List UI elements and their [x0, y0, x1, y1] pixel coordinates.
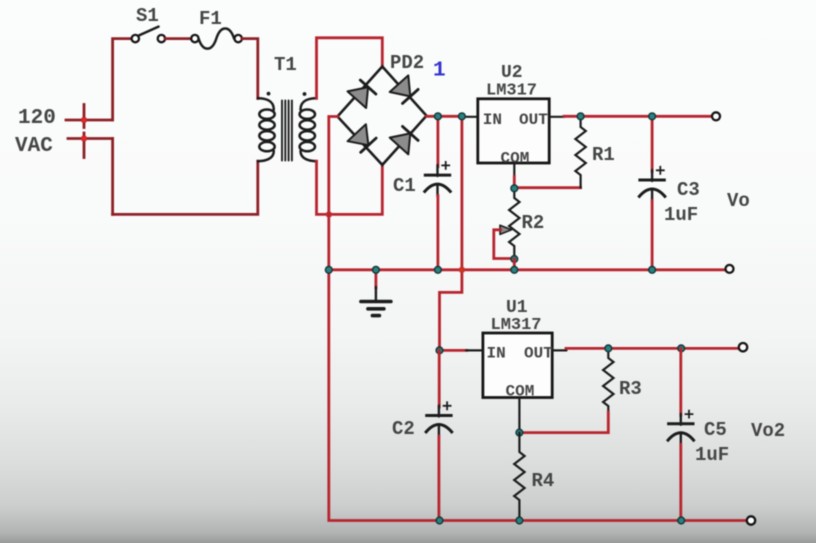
junction dots on U1 OUT rail [605, 345, 685, 352]
wire: to U1 IN [440, 349, 468, 352]
wire: R2 wiper loop to bottom [494, 230, 515, 259]
wire: F1 to transformer primary top [242, 39, 258, 99]
svg-text:C1: C1 [393, 175, 416, 197]
svg-text:C2: C2 [392, 418, 415, 440]
wire: secondary top to bridge top [317, 38, 383, 99]
resistor R1 [575, 116, 585, 187]
wire: C2 top lead [438, 350, 441, 407]
pin stub U1 IN [466, 349, 483, 351]
svg-text:IN: IN [487, 345, 506, 363]
svg-text:PD2: PD2 [390, 52, 424, 74]
wire: ground stem [374, 270, 377, 288]
bridge rectifier PD2 frame [338, 67, 427, 165]
capacitor C3 [638, 166, 665, 202]
svg-text:Vo: Vo [727, 190, 750, 212]
svg-text:120: 120 [18, 107, 56, 130]
wire: C1 bottom lead [436, 196, 439, 270]
ground rail [329, 268, 726, 271]
diode D4 (bottom to right) [390, 126, 418, 154]
wire: C1 top lead [436, 116, 439, 166]
junction: R2 wiper/bottom [511, 256, 518, 263]
diode D2 (top to right) [390, 75, 418, 103]
junction dots on bottom rail [436, 517, 684, 524]
terminal Vo- [726, 265, 734, 273]
fuse F1 [191, 29, 242, 49]
svg-text:R4: R4 [532, 470, 555, 492]
capacitor C5 [667, 410, 694, 446]
junction dot U1 COM node [516, 429, 523, 436]
wire: C5 bottom lead [679, 444, 682, 520]
svg-text:T1: T1 [274, 54, 297, 76]
terminal Vo2+ [739, 343, 747, 351]
R2 wiper arrow [500, 225, 512, 234]
svg-text:U2: U2 [501, 63, 523, 83]
svg-text:R2: R2 [522, 212, 545, 234]
pin stub U2 COM [513, 163, 515, 178]
svg-text:Vo2: Vo2 [751, 420, 785, 442]
label 120 VAC [15, 107, 56, 158]
U2 pin labels [483, 111, 548, 167]
pin stub U1 COM [518, 398, 520, 433]
pin stub U2 IN [462, 116, 478, 118]
junction dots on ground rail [325, 266, 655, 273]
wire: S1 to F1 [165, 37, 191, 40]
wire: R2 bottom to rail [513, 259, 516, 270]
wire: DC+ from bridge right vertex to U2 IN [427, 115, 463, 118]
wire: U2 OUT to Vo terminal [564, 115, 712, 118]
capacitor C1 [424, 161, 451, 197]
svg-text:1uF: 1uF [695, 444, 729, 466]
switch S1 [132, 27, 165, 43]
wire: AC top pin up left riser [113, 39, 132, 120]
resistor R4 [514, 433, 524, 521]
pin stub U2 OUT [549, 116, 564, 118]
svg-text:1: 1 [433, 60, 446, 83]
regulator U2 box [478, 99, 549, 163]
svg-text:1uF: 1uF [664, 204, 698, 226]
wire: R3 bottom to COM node [519, 412, 608, 433]
transformer T1 [258, 92, 317, 162]
wire: primary bottom loop back to source [113, 161, 258, 214]
svg-text:U1: U1 [506, 298, 528, 318]
wire: C5 top lead [679, 348, 682, 415]
AC source pin 2 (bottom) [68, 133, 113, 158]
junction dots on U2 OUT rail [577, 113, 655, 120]
resistor R3 [603, 348, 613, 413]
crossing artifact dot (feed over ground rail) [459, 267, 464, 272]
wire: DC- from bridge left vertex down to ground rail and bottom rail [329, 117, 747, 521]
wire: COM node [513, 177, 516, 189]
svg-text:S1: S1 [136, 5, 159, 27]
U1 pin labels [487, 345, 554, 401]
wire: AC bottom pin down left riser [111, 139, 114, 215]
terminal Vo2- [747, 516, 755, 524]
AC source pin 1 (top) [66, 105, 113, 128]
wire: C3 top lead [651, 116, 654, 171]
terminal Vo+ [712, 112, 720, 120]
wire: U1 OUT to Vo2 terminal [566, 347, 739, 350]
svg-text:OUT: OUT [524, 345, 553, 363]
wire: secondary bottom to bridge bottom [317, 161, 383, 214]
svg-text:IN: IN [483, 111, 502, 129]
diode D3 (left to bottom) [348, 124, 377, 152]
junction dot U1 IN node [436, 347, 443, 354]
diode D1 (left to top) [348, 80, 376, 108]
resistor R2 (rheostat) [509, 188, 519, 259]
wire: C2 bottom lead [437, 436, 440, 521]
junction dot COM node U2 [511, 185, 518, 192]
svg-text:OUT: OUT [519, 111, 548, 129]
svg-text:F1: F1 [199, 8, 222, 30]
regulator U1 box [483, 333, 552, 398]
pin stub U1 OUT [552, 349, 566, 351]
svg-text:VAC: VAC [15, 135, 53, 158]
capacitor C2 [425, 401, 452, 437]
svg-text:R1: R1 [592, 144, 615, 166]
junction dots on DC+ node [435, 113, 466, 120]
crossing artifact dot [326, 212, 331, 217]
svg-text:C3: C3 [677, 179, 700, 201]
wire: R1 bottom to COM node [514, 186, 580, 189]
svg-text:C5: C5 [704, 419, 727, 441]
wire: feed down to U1 stage [440, 116, 462, 350]
ground symbol [361, 287, 391, 316]
svg-text:R3: R3 [619, 378, 642, 400]
wire: C3 bottom lead [651, 201, 654, 270]
